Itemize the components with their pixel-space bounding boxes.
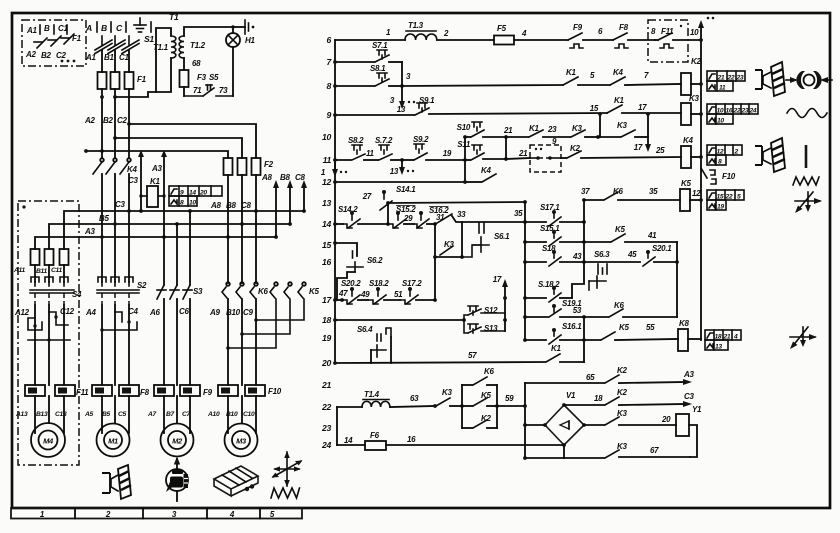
svg-text:17: 17 [638,103,647,112]
rung 24 wire with 14 and fuse F6 [337,431,564,450]
svg-text:K4: K4 [127,165,137,174]
svg-text:23: 23 [736,75,744,82]
svg-text:A8: A8 [210,201,221,210]
K4 cross-reference table [707,145,742,166]
line 18 K2 to C3 [564,388,694,407]
svg-text:9: 9 [327,110,332,120]
ladder right rail [698,17,714,340]
contact K1 rung8 [563,68,610,85]
svg-text:F9: F9 [203,388,213,397]
svg-text:17: 17 [634,143,643,152]
motor M4 leads [35,396,64,433]
rung 20 wire with 57 [333,351,545,365]
svg-text:B1: B1 [104,53,114,62]
svg-text:S6.2: S6.2 [367,256,383,265]
svg-text:63: 63 [410,394,419,403]
svg-text:S15.1: S15.1 [540,224,560,233]
svg-text:55: 55 [646,323,655,332]
svg-text:68: 68 [192,59,201,68]
svg-text:S3: S3 [193,287,203,296]
svg-text:K3: K3 [572,124,582,133]
svg-text:M1: M1 [108,437,118,446]
svg-text:F2: F2 [264,160,274,169]
breaker double-blade contacts under A B C [95,36,139,54]
wire labels A11 B11 C11 [13,267,62,275]
svg-text:K6: K6 [613,187,623,196]
svg-text:A: A [85,23,92,33]
svg-text:S14.1: S14.1 [396,185,416,194]
switch S5 [184,73,233,96]
svg-text:6: 6 [327,35,332,45]
svg-text:16: 16 [726,108,733,115]
motor M3 leads [228,396,256,433]
switch S13 [464,318,507,333]
svg-text:K1: K1 [566,68,576,77]
wire labels A2 B2 C2 [84,116,127,125]
svg-text:2: 2 [734,149,739,156]
svg-text:C6: C6 [179,307,189,316]
S4 reversing links [28,305,70,385]
wire labels A8 B8 C8 at bus [210,201,251,210]
svg-text:C9: C9 [243,308,253,317]
svg-text:B11: B11 [36,268,47,275]
K3 cross-reference table [707,104,758,125]
svg-text:F1: F1 [137,75,147,84]
line 67 K3 [525,442,690,458]
svg-text:18: 18 [594,394,603,403]
spindle drill icon [102,465,131,499]
contact K2 rung11 [561,144,681,158]
contact K3 rung22 [433,388,462,408]
svg-text:F5: F5 [497,24,507,33]
svg-text:H1: H1 [245,36,255,45]
choke T1.4 [337,390,435,407]
svg-text:S2: S2 [137,281,147,290]
svg-text:21: 21 [717,75,725,82]
F11 plug-in box (dash-dot) [648,20,688,62]
svg-text:S17.2: S17.2 [402,279,422,288]
svg-text:K1: K1 [614,96,624,105]
motor M2 leads [164,396,190,433]
svg-text:Y1: Y1 [692,405,702,414]
motor M1 [97,424,130,457]
svg-text:S9.2: S9.2 [413,135,429,144]
svg-text:41: 41 [647,231,657,240]
svg-text:11: 11 [323,155,332,165]
svg-text:45: 45 [627,250,637,259]
thermal heaters F8 [92,385,150,397]
svg-text:K2: K2 [570,144,580,153]
svg-text:B5: B5 [102,411,111,418]
svg-text:C3: C3 [128,176,138,185]
svg-text:B7: B7 [166,411,175,418]
thermal contact F8 [613,23,655,48]
svg-text:B: B [44,24,50,33]
svg-text:18: 18 [322,315,331,325]
svg-text:V1: V1 [566,391,576,400]
svg-text:51: 51 [394,290,403,299]
svg-text:K3: K3 [617,121,627,130]
svg-text:C3: C3 [684,392,694,401]
zone strip [11,508,302,519]
svg-text:K4: K4 [481,166,491,175]
rung 15 + limit switch S6.2 [333,241,383,299]
K5 cross-reference table [707,190,744,211]
svg-text:M4: M4 [43,437,54,446]
rung 8: S8.1 [333,64,404,88]
svg-text:20: 20 [321,358,331,368]
feed arrows icon [795,192,822,213]
svg-text:12: 12 [692,189,701,198]
button S18 [525,244,584,266]
svg-text:K5: K5 [681,179,691,188]
drum switch S4 [30,277,82,305]
svg-text:S20.2: S20.2 [341,279,361,288]
contact K5 41 [584,225,679,317]
thermal heaters F9 [154,385,213,397]
svg-text:S20.1: S20.1 [652,244,672,253]
svg-text:22: 22 [727,75,735,82]
button S19.1 [525,299,582,317]
svg-text:K8: K8 [679,319,689,328]
rung numbers [321,35,332,450]
svg-text:13: 13 [390,167,399,176]
svg-text:A1: A1 [85,53,96,62]
svg-text:A5: A5 [84,411,94,418]
svg-text:C8: C8 [295,173,305,182]
svg-text:35: 35 [514,209,523,218]
svg-text:B2: B2 [41,51,51,60]
line 65 K2 to A3 [525,366,694,385]
contact K4 rung8 [610,68,681,85]
K1 cross-reference table [169,186,222,207]
svg-text:S11: S11 [457,140,471,149]
fuse F3 [180,70,207,95]
svg-text:37: 37 [581,187,590,196]
svg-text:K4: K4 [683,136,693,145]
rung 11: S8.2 S7.2 [333,136,404,162]
coil K5 [680,179,703,211]
svg-text:F3: F3 [197,73,207,82]
svg-text:12: 12 [717,149,724,156]
wire from S11 into connector [506,158,530,159]
svg-text:S13: S13 [484,324,498,333]
wire 3 drop from rung7 to rung8 [402,62,411,86]
svg-text:15: 15 [717,194,724,201]
svg-text:65: 65 [586,373,595,382]
svg-text:19: 19 [717,204,724,211]
svg-text:11: 11 [366,149,375,158]
line 20 K3 to coil Y1 [584,405,702,457]
contact K3 mid [435,222,481,259]
svg-text:K3: K3 [444,240,454,249]
svg-text:S12: S12 [484,306,498,315]
svg-text:S8.2: S8.2 [348,136,364,145]
svg-text:M3: M3 [236,437,247,446]
feed resistor zigzag icon [271,488,300,498]
svg-text:C8: C8 [241,201,251,210]
svg-text:A1: A1 [26,26,37,35]
svg-text:S6.4: S6.4 [357,325,373,334]
svg-text:47: 47 [338,289,348,298]
svg-text:S5: S5 [209,73,219,82]
svg-text:A12: A12 [14,308,30,317]
svg-text:K1: K1 [529,124,539,133]
svg-text:A8: A8 [261,173,272,182]
K2 cross-reference table [707,71,745,92]
motor M4 [31,423,65,457]
svg-text:K1: K1 [551,344,561,353]
svg-text:71: 71 [193,86,202,95]
svg-text:B13: B13 [36,411,48,418]
limit switch S6.4 [357,325,391,363]
limit switch S6.3 [584,250,640,290]
svg-text:C13: C13 [55,411,67,418]
svg-text:67: 67 [650,446,659,455]
svg-text:5: 5 [737,194,741,201]
rung 18 wire [333,318,466,322]
bus C3 [64,209,306,249]
gear icon (spindle drive) row K2 [755,62,785,96]
svg-text:10: 10 [717,118,724,125]
svg-text:K3: K3 [442,388,452,397]
rung 14 wire [333,222,343,226]
svg-text:24: 24 [321,440,331,450]
rung 7: S7.1 [333,41,402,64]
button S15.2 [388,205,416,228]
svg-text:T1.4: T1.4 [364,390,380,399]
svg-text:B: B [101,23,107,33]
sub-ladder bus x584 [582,200,586,264]
svg-text:2: 2 [443,29,449,38]
lamp plug symbol [233,20,254,34]
svg-text:F10: F10 [722,172,736,181]
svg-text:11: 11 [719,85,726,92]
svg-text:S16.1: S16.1 [562,322,582,331]
coil K2 [681,57,703,95]
svg-text:59: 59 [505,394,514,403]
K5 cross links to motor phases [226,299,304,350]
switch S3 [149,211,203,385]
svg-text:K3: K3 [617,442,627,451]
svg-text:B8: B8 [226,201,236,210]
button S18.2 [368,279,403,304]
svg-text:A4: A4 [85,308,96,317]
svg-text:8: 8 [327,81,332,91]
svg-text:22: 22 [733,108,741,115]
svg-text:16: 16 [407,435,416,444]
rung 13 wire [386,200,527,205]
feed arrows icon lower right [790,327,817,349]
K6/K5/K2 parallel group [460,367,525,428]
svg-text:M2: M2 [172,437,183,446]
svg-text:21: 21 [518,149,528,158]
svg-text:14: 14 [189,190,196,197]
drum switch S2 [97,277,147,305]
svg-text:C10: C10 [243,411,255,418]
svg-text:A9: A9 [209,308,220,317]
svg-text:A3: A3 [151,164,162,173]
contactor K5 contacts [270,282,319,298]
input phases A B C [85,22,126,33]
svg-text:T1.2: T1.2 [190,41,206,50]
svg-text:35: 35 [649,187,658,196]
svg-text:57: 57 [468,351,477,360]
svg-text:K2: K2 [481,414,491,423]
motor M2 [161,424,194,457]
svg-text:4: 4 [733,334,738,341]
svg-text:A10: A10 [207,411,220,418]
outgoing arrows A8 B8 C8 [261,173,307,237]
svg-text:K2: K2 [691,57,701,66]
svg-text:23: 23 [321,423,331,433]
svg-text:21: 21 [723,334,731,341]
svg-text:49: 49 [360,290,370,299]
dc feed vertical x525 [523,383,527,460]
svg-text:A3: A3 [683,370,694,379]
thermal contact F11 [655,28,703,48]
svg-text:S14.2: S14.2 [338,205,358,214]
svg-text:C1: C1 [119,53,129,62]
contact S11 [457,140,528,161]
rung 17 wire [333,298,344,302]
svg-text:C12: C12 [60,307,75,316]
svg-text:17: 17 [322,295,332,305]
wire 13 outgoing marker [390,160,415,176]
svg-text:B2: B2 [103,116,113,125]
svg-text:C5: C5 [118,411,127,418]
rungs 22/24 left rail [336,407,338,445]
svg-text:S8.1: S8.1 [370,64,386,73]
rung 8 continues to K2 coil [402,85,563,86]
contact K5 55 to K8 [582,323,678,342]
svg-text:18: 18 [715,334,722,341]
svg-text:23: 23 [741,108,749,115]
svg-text:C2: C2 [117,116,127,125]
transformer winding T1.3 [405,21,494,40]
svg-text:F8: F8 [619,23,629,32]
sub-ladder bus x525 [523,202,527,342]
button S17.1 [525,203,584,226]
thermal contact F9 [568,23,613,48]
contact S9.2 [402,135,467,162]
svg-text:4: 4 [521,29,527,38]
svg-text:B10: B10 [226,308,241,317]
contact K1 rung20 [546,315,586,362]
svg-text:K5: K5 [309,287,319,296]
svg-text:F8: F8 [140,388,150,397]
svg-text:12: 12 [322,177,331,187]
button S14.2 [338,205,390,228]
svg-text:29: 29 [403,214,413,223]
vertical link x435 [433,224,437,302]
contact S10 [457,122,513,160]
svg-text:15: 15 [590,104,599,113]
svg-text:25: 25 [655,146,665,155]
clutch coupling icon [786,71,832,89]
svg-text:K3: K3 [689,94,699,103]
svg-text:K6: K6 [258,287,268,296]
svg-text:21: 21 [321,380,331,390]
resistor zigzag icon [793,177,819,185]
svg-text:10: 10 [189,200,196,207]
svg-text:C2: C2 [56,51,66,60]
svg-text:13: 13 [715,344,722,351]
signal lamp H1 [226,25,255,96]
svg-text:S10: S10 [457,123,471,132]
K8 cross-reference table [705,330,741,351]
svg-text:K5: K5 [481,391,491,400]
M4 removable unit enclosure (dash-dot) [18,201,79,465]
wire 3 arrow to S9.1 [390,86,435,109]
svg-text:S18.2: S18.2 [369,279,389,288]
motor M1 leads [102,396,129,433]
svg-text:B5: B5 [99,214,109,223]
node 1 outgoing marker below rung 11 [321,162,347,177]
main contactor contacts on phase columns [93,158,131,282]
svg-text:22: 22 [725,194,733,201]
plug/breaker box F1 (dash-dot enclosure) [22,20,86,66]
bus A3 [35,235,278,249]
svg-text:A2: A2 [84,116,95,125]
control fuses F2 [224,158,274,283]
svg-text:16: 16 [322,257,331,267]
button S20.1 [643,244,677,266]
svg-text:8: 8 [718,159,722,166]
svg-text:13: 13 [322,198,331,208]
svg-text:K5: K5 [619,323,629,332]
svg-text:23: 23 [547,125,557,134]
rung 9: S9.1 contact [333,103,607,117]
limit switch S6.1 [473,223,510,252]
contact K3 to wire 17 [598,112,651,152]
rung for K5 coil: 37 K6 35 [581,187,680,202]
svg-text:24: 24 [749,108,757,115]
svg-text:K1: K1 [150,177,160,186]
svg-text:10: 10 [690,28,699,37]
button S14.1 [362,185,417,224]
svg-text:K6: K6 [614,301,624,310]
svg-text:A3: A3 [84,227,95,236]
vertical bar icon [805,145,808,168]
button S20.2 [338,279,370,304]
bus B5 [49,222,292,249]
svg-text:10: 10 [717,108,724,115]
clamp coil K1 with arrows [127,150,167,239]
wire labels A1 B1 C1 [85,53,129,62]
taps to control fuses F2 [84,124,256,158]
svg-text:A13: A13 [15,411,28,418]
svg-text:K6: K6 [484,367,494,376]
fuses F7 for M4 feeder [31,249,69,282]
coolant pump icon [166,457,188,502]
svg-text:33: 33 [457,210,466,219]
svg-text:F6: F6 [370,431,380,440]
transformer T1 primary T1.1 [115,28,176,97]
svg-text:A6: A6 [149,308,160,317]
rung 6 wire [335,39,405,41]
svg-text:T1: T1 [169,12,179,22]
svg-text:K2: K2 [617,388,627,397]
svg-text:8: 8 [180,200,184,207]
svg-text:21: 21 [503,126,513,135]
rectifier bridge V1 [525,391,586,458]
svg-text:S6.3: S6.3 [594,250,610,259]
svg-text:27: 27 [362,192,372,201]
svg-text:F11: F11 [76,388,89,397]
button S15.1 [525,224,584,246]
thermal heaters F11 [25,385,89,397]
